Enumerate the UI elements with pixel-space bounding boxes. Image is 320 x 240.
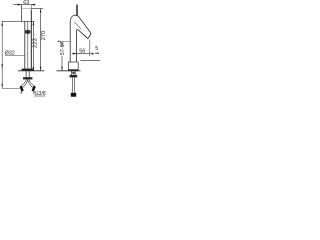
adjacent view edge line <box>81 60 101 62</box>
label O32 leader <box>5 55 25 57</box>
dimension 56 right arrow <box>90 53 94 55</box>
clipped right label dash <box>95 53 99 54</box>
front view column middle line <box>27 21 29 69</box>
dimension 57-67 top arrow <box>61 41 63 45</box>
dimension 223 top arrow <box>33 21 35 25</box>
right bottom fitting <box>71 93 76 97</box>
left hose fitting <box>19 86 23 92</box>
right hose tail <box>33 91 35 93</box>
side view base dark band <box>68 69 78 71</box>
svg-text:5: 5 <box>95 46 98 52</box>
extension line outlet bottom level <box>57 40 70 42</box>
extension line head left edge <box>20 5 22 21</box>
dimension 270 bottom arrow <box>40 67 42 71</box>
dimension 223 bottom arrow <box>33 67 35 71</box>
front view right edge <box>30 5 32 10</box>
dimension 270 line <box>40 9 42 71</box>
left chain dimension line <box>1 21 3 88</box>
svg-text:223: 223 <box>33 38 39 48</box>
left mounting nut bar <box>23 77 32 79</box>
front view outlet ellipse <box>25 30 31 34</box>
extension line faucet top <box>31 8 43 10</box>
hose end level line <box>2 88 19 90</box>
svg-text:270: 270 <box>41 31 47 41</box>
svg-text:56: 56 <box>79 48 85 54</box>
left hose tail <box>20 91 22 93</box>
right shank lines <box>71 71 73 75</box>
side view head and spout outline <box>70 15 91 62</box>
dimension 63 left arrow <box>18 4 22 6</box>
dimension 57-67 bottom arrow <box>61 67 63 71</box>
front view base bar <box>22 69 34 71</box>
side view elbow inner arc <box>74 22 81 29</box>
extension line outlet tip vertical <box>89 40 91 57</box>
left shank lines <box>25 71 27 78</box>
dimension 56 left tail <box>72 53 77 55</box>
right hose inner <box>28 80 33 88</box>
front view head top edge <box>22 8 32 10</box>
dimension 63 right arrow <box>31 4 35 6</box>
dimension 63 line <box>13 4 35 6</box>
right shank thread block <box>72 72 74 74</box>
left chain middle arrow <box>1 64 3 69</box>
side view pin handle <box>76 5 78 16</box>
dimension 57-67 line lower <box>61 56 63 71</box>
outlet level left mark <box>57 41 59 43</box>
dimension 56 left arrow <box>73 53 77 55</box>
label G3/8 leader <box>34 95 46 97</box>
svg-text:63: 63 <box>23 0 29 6</box>
right supply pipe lines <box>71 77 73 92</box>
svg-text:57-67: 57-67 <box>60 41 66 55</box>
right mounting nut bar <box>70 75 78 77</box>
left chain top arrow <box>1 21 3 25</box>
dimension 270 top arrow <box>40 9 42 13</box>
dimension 56 line <box>77 53 90 55</box>
counter line right view <box>57 70 81 72</box>
side view column left edge <box>69 22 71 62</box>
right hose fitting <box>31 86 35 92</box>
left chain bottom arrow <box>1 84 3 89</box>
right hose outer <box>29 80 35 87</box>
left hose inner <box>23 80 28 88</box>
spout outlet level line 223 <box>2 20 35 22</box>
counter line left view <box>18 70 44 72</box>
left hose outer <box>21 80 27 87</box>
front view column left edge <box>24 21 26 69</box>
side view base outline <box>68 62 78 71</box>
dimension 223 line <box>32 21 34 71</box>
